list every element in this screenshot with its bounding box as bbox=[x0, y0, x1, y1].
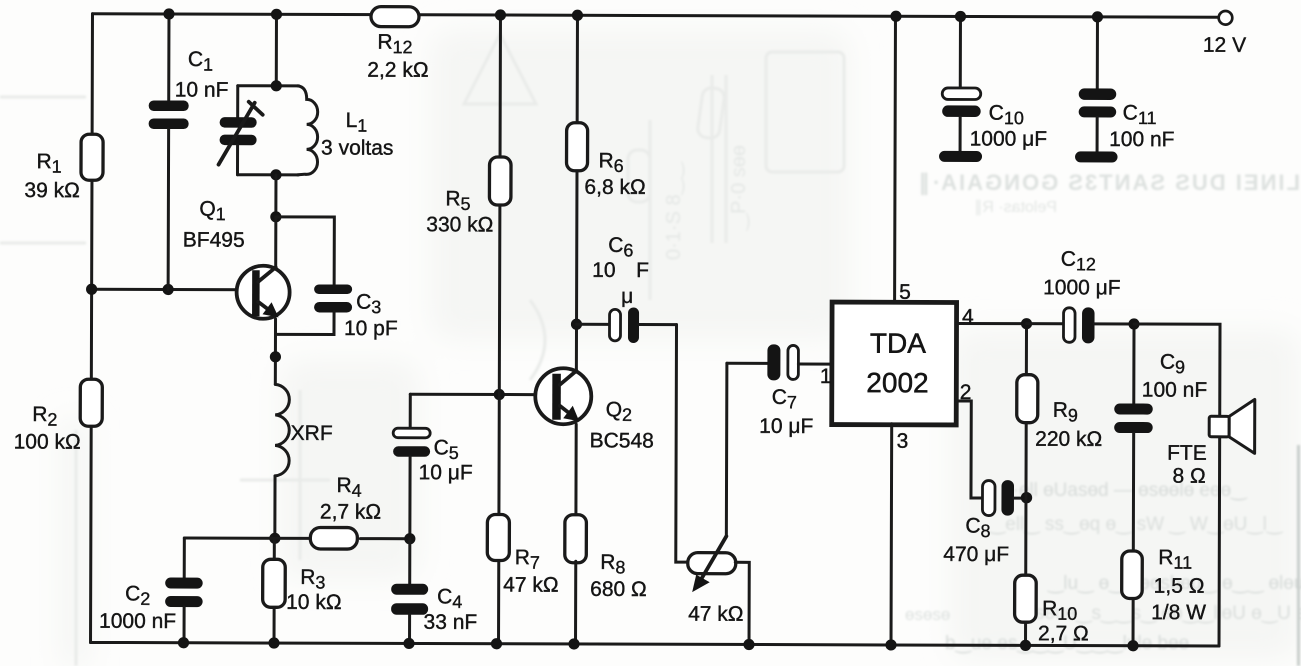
svg-text:2,2 kΩ: 2,2 kΩ bbox=[367, 59, 428, 82]
svg-text:47 kΩ: 47 kΩ bbox=[503, 574, 558, 597]
svg-text:TDA: TDA bbox=[870, 328, 926, 359]
wire speaker branch bbox=[1134, 324, 1220, 416]
node R6 top rail junction bbox=[572, 10, 583, 21]
svg-text:C2: C2 bbox=[125, 582, 150, 609]
node R11 ground junction bbox=[1127, 640, 1138, 651]
capacitor CV trimmer bbox=[218, 86, 262, 175]
wire Q1 emitter down bbox=[274, 319, 277, 384]
wire Q2 emitter to R8 bbox=[574, 424, 577, 514]
svg-text:100 nF: 100 nF bbox=[1142, 379, 1207, 402]
wire Q2 base line bbox=[410, 393, 553, 396]
capacitor C7 bbox=[727, 344, 832, 438]
pin 2 wire bbox=[956, 401, 983, 498]
svg-text:Pelotas· R∥: Pelotas· R∥ bbox=[974, 199, 1057, 216]
resistor R5 bbox=[426, 157, 511, 237]
node Q1 collector / C3 junction bbox=[270, 211, 281, 222]
svg-text:47 kΩ: 47 kΩ bbox=[688, 603, 743, 626]
capacitor C6 bbox=[576, 234, 676, 343]
svg-text:‿ell‿ sѕ‿өq ө‿ ѕW ‿ W‿өU‿l‿: ‿ell‿ sѕ‿өq ө‿ ѕW ‿ W‿өU‿l‿ bbox=[989, 514, 1284, 535]
wire ground bottom rail bbox=[91, 642, 1219, 646]
svg-text:R7: R7 bbox=[515, 546, 540, 573]
svg-text:470 μF: 470 μF bbox=[943, 543, 1009, 566]
node pin3 ground junction bbox=[885, 639, 896, 650]
node tank branch top rail bbox=[271, 9, 282, 20]
svg-text:C12: C12 bbox=[1061, 248, 1096, 275]
node R3 ground junction bbox=[268, 637, 279, 648]
node Q2 collector / C6 junction bbox=[571, 319, 582, 330]
speaker FTE bbox=[1167, 399, 1255, 488]
node tank bottom junction bbox=[270, 169, 281, 180]
op-amp U1 TDA2002 bbox=[832, 302, 957, 425]
node R10 ground junction bbox=[1020, 640, 1031, 651]
node C2 ground junction bbox=[178, 637, 189, 648]
capacitor C8 bbox=[943, 480, 1026, 566]
svg-text:LINEI DUS SANT3S GONGAIA·∥: LINEI DUS SANT3S GONGAIA·∥ bbox=[917, 170, 1300, 196]
svg-text:4: 4 bbox=[962, 305, 974, 328]
svg-text:1: 1 bbox=[820, 365, 832, 388]
svg-text:C4: C4 bbox=[437, 585, 462, 612]
wire R6/Q2 branch bbox=[576, 15, 577, 369]
svg-text:C11: C11 bbox=[1123, 101, 1157, 128]
resistor R2 bbox=[14, 379, 103, 454]
capacitor C10 bbox=[939, 16, 1047, 162]
svg-text:C3: C3 bbox=[356, 291, 381, 318]
pin 5 wire bbox=[893, 16, 897, 302]
node C1 top rail junction bbox=[163, 8, 174, 19]
svg-text:100 nF: 100 nF bbox=[1109, 128, 1174, 151]
svg-text:220 kΩ: 220 kΩ bbox=[1035, 428, 1102, 451]
svg-text:2002: 2002 bbox=[866, 367, 928, 398]
svg-text:1000 nF: 1000 nF bbox=[99, 610, 176, 633]
wire tank branch from rail bbox=[275, 14, 278, 85]
transistor Q1 bbox=[183, 198, 290, 319]
node R8 ground junction bbox=[568, 638, 579, 649]
node C5/C4/R4 junction bbox=[404, 533, 415, 544]
svg-text:10 pF: 10 pF bbox=[344, 317, 398, 340]
potentiometer 47k bbox=[688, 363, 750, 644]
svg-text:XRF: XRF bbox=[291, 422, 333, 445]
wire tank bottom bbox=[237, 173, 298, 176]
pin 4 wire bbox=[957, 322, 1027, 325]
svg-text:10 nF: 10 nF bbox=[175, 79, 229, 102]
capacitor C3 bbox=[275, 217, 398, 340]
capacitor C1 bbox=[148, 14, 229, 290]
svg-text:Q2: Q2 bbox=[606, 398, 632, 425]
capacitor C4 bbox=[391, 539, 478, 644]
svg-text:F: F bbox=[636, 259, 649, 282]
wire L1 node to Q1 collector bbox=[274, 175, 277, 217]
svg-text:10 μF: 10 μF bbox=[419, 461, 473, 484]
svg-text:39 kΩ: 39 kΩ bbox=[24, 179, 79, 202]
wire 12V top rail bbox=[92, 14, 1218, 18]
svg-text:L1: L1 bbox=[346, 109, 368, 136]
svg-text:R2: R2 bbox=[32, 403, 57, 430]
wire tank top bbox=[238, 84, 299, 87]
capacitor C12 bbox=[1026, 248, 1134, 344]
svg-text:8 Ω: 8 Ω bbox=[1173, 465, 1206, 488]
node XRF/R3/R4 junction bbox=[269, 533, 280, 544]
svg-text:330 kΩ: 330 kΩ bbox=[426, 213, 493, 236]
node R5 top rail junction bbox=[495, 9, 506, 20]
capacitor C5 bbox=[393, 394, 473, 539]
svg-text:100 kΩ: 100 kΩ bbox=[14, 431, 81, 454]
svg-text:0·1·S 8‿‿: 0·1·S 8‿‿ bbox=[663, 161, 685, 260]
node R7 ground junction bbox=[491, 638, 502, 649]
svg-text:1000 μF: 1000 μF bbox=[1043, 276, 1121, 299]
svg-text:10: 10 bbox=[592, 259, 615, 282]
node C1 bottom junction bbox=[163, 284, 174, 295]
svg-text:BF495: BF495 bbox=[183, 229, 245, 252]
svg-text:1000 μF: 1000 μF bbox=[970, 128, 1048, 151]
svg-text:2,7 Ω: 2,7 Ω bbox=[1038, 622, 1089, 645]
svg-text:μ: μ bbox=[621, 285, 633, 308]
node R5/R7 base tap bbox=[494, 389, 505, 400]
svg-text:s·ell өUaѕөd — өѕөөlө eөө‿: s·ell өUaѕөd — өѕөөlө eөө‿ bbox=[1003, 480, 1248, 501]
node C4 ground junction bbox=[403, 638, 414, 649]
svg-text:680 Ω: 680 Ω bbox=[590, 578, 647, 601]
svg-text:C7: C7 bbox=[772, 386, 797, 413]
svg-text:6,8 kΩ: 6,8 kΩ bbox=[584, 176, 645, 199]
node C8/R9/R10 junction bbox=[1021, 492, 1032, 503]
resistor R1 bbox=[24, 134, 103, 202]
svg-text:3 voltas: 3 voltas bbox=[321, 136, 393, 159]
node emitter junction bbox=[270, 351, 281, 362]
resistor R4 bbox=[184, 474, 410, 550]
wire Q1 base line bbox=[92, 288, 253, 292]
node tank top junction bbox=[271, 80, 282, 91]
svg-text:R1: R1 bbox=[36, 150, 61, 177]
resistor R7 bbox=[487, 514, 559, 596]
svg-text:C5: C5 bbox=[434, 436, 459, 463]
capacitor C11 bbox=[1075, 17, 1175, 163]
svg-text:C1: C1 bbox=[188, 48, 213, 75]
node pot ground junction bbox=[743, 639, 754, 650]
svg-text:33 nF: 33 nF bbox=[424, 611, 478, 634]
resistor R3 bbox=[263, 538, 342, 643]
svg-text:2,7 kΩ: 2,7 kΩ bbox=[320, 500, 381, 523]
svg-text:Q1: Q1 bbox=[199, 198, 225, 225]
wire R5/R7 branch bbox=[499, 15, 501, 644]
svg-text:R12: R12 bbox=[377, 31, 412, 58]
svg-text:өѕөѕө: өѕөѕө bbox=[905, 605, 950, 624]
node C11 top rail junction bbox=[1092, 11, 1103, 22]
capacitor C2 bbox=[99, 538, 203, 643]
wire C9/R11 branch bbox=[1132, 324, 1135, 403]
node R1/R2/base junction bbox=[86, 284, 97, 295]
resistor R8 bbox=[565, 515, 647, 644]
svg-text:BC548: BC548 bbox=[590, 429, 654, 452]
svg-text:10 μF: 10 μF bbox=[759, 415, 813, 438]
resistor R9 bbox=[1017, 375, 1103, 451]
resistor R10 bbox=[1015, 575, 1089, 645]
svg-text:12 V: 12 V bbox=[1203, 34, 1246, 57]
inductor L1 bbox=[297, 86, 393, 175]
node pin4/R9/C12 junction bbox=[1021, 318, 1032, 329]
svg-text:C10: C10 bbox=[989, 102, 1024, 129]
node pin5 top rail junction bbox=[890, 11, 901, 22]
node C10 top rail junction bbox=[955, 11, 966, 22]
svg-text:‿P·0 ѕөө: ‿P·0 ѕөө bbox=[728, 145, 750, 231]
svg-text:5: 5 bbox=[899, 281, 911, 304]
wire collector to Q1 bbox=[274, 217, 277, 266]
svg-text:2: 2 bbox=[960, 381, 972, 404]
svg-text:10 kΩ: 10 kΩ bbox=[286, 591, 341, 614]
wire R9/R10 branch bbox=[1026, 324, 1027, 646]
resistor R6 bbox=[566, 123, 645, 199]
svg-text:1/8 W: 1/8 W bbox=[1151, 601, 1206, 624]
svg-text:FTE: FTE bbox=[1167, 442, 1207, 465]
capacitor C9 bbox=[1114, 350, 1208, 550]
svg-text:1,5 Ω: 1,5 Ω bbox=[1154, 575, 1205, 598]
12V supply terminal bbox=[1203, 11, 1246, 57]
node C12/C9 junction bbox=[1128, 318, 1139, 329]
svg-text:R8: R8 bbox=[600, 551, 625, 578]
pin 3 wire bbox=[890, 424, 894, 645]
resistor R12 bbox=[367, 7, 428, 82]
svg-text:3: 3 bbox=[897, 430, 909, 453]
transistor Q2 bbox=[535, 368, 654, 452]
wire C6 to volume pot bbox=[676, 325, 689, 563]
inductor XRF bbox=[275, 384, 333, 538]
wire left rail (R1/R2 branch) bbox=[91, 14, 93, 643]
resistor R11 bbox=[1122, 546, 1207, 646]
